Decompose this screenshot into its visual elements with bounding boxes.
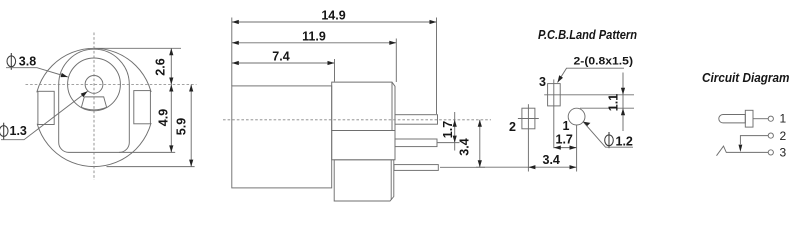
pad 1 top tangent line (580, 107, 634, 109)
dimension text 5.9 (175, 118, 189, 135)
sleeve contact rectangle (745, 110, 753, 127)
extension line body bottom (107, 166, 195, 168)
terminal 3 label (780, 145, 787, 159)
pin 2 (middle) (395, 139, 437, 147)
svg-text:3: 3 (780, 145, 787, 159)
svg-text:2-(0.8x1.5): 2-(0.8x1.5) (574, 56, 634, 68)
dimension text 1.7 (land pattern) (556, 133, 573, 147)
land pattern title (538, 28, 637, 42)
dimension line 14.9 (232, 20, 437, 24)
cover left circle sliver (31, 92, 39, 124)
svg-text:2: 2 (780, 129, 787, 143)
extension line top of body (94, 47, 181, 49)
pad 3 rectangle (548, 84, 561, 106)
jack body outer circle (35, 48, 153, 166)
pad 1 vertical centerline (576, 125, 578, 172)
front view vertical centerline (93, 33, 95, 181)
key slot trapezoid (81, 97, 106, 110)
extension line right 11.9 (395, 39, 397, 83)
svg-text:3: 3 (539, 75, 546, 89)
svg-text:2: 2 (509, 120, 516, 134)
label phi 1.3 with leader (0, 91, 88, 140)
svg-text:4.9: 4.9 (157, 109, 171, 126)
svg-text:5.9: 5.9 (175, 118, 189, 135)
extension line face bottom (119, 151, 175, 153)
svg-text:3.4: 3.4 (458, 138, 472, 155)
left mounting tab (38, 91, 54, 124)
terminal 1 label (780, 112, 787, 126)
svg-text:3.4: 3.4 (543, 153, 560, 167)
side view centerline (223, 119, 491, 121)
main body rectangle (232, 86, 332, 188)
dimension line 1.1 (621, 73, 625, 132)
extension line pin2 center (438, 142, 460, 144)
barrel chamfer line (391, 82, 393, 130)
pad 2 rectangle (522, 108, 535, 129)
svg-text:1.2: 1.2 (616, 134, 633, 148)
dimension line 1.7 (land pattern) (554, 146, 577, 150)
front face outline (59, 49, 130, 152)
plug tip symbol (719, 115, 746, 123)
label 2-(0.8x1.5) with leader (558, 56, 634, 83)
dimension text 3.4 (land pattern) (543, 153, 560, 167)
pad 2 vertical centerline (527, 104, 529, 171)
dimension line 11.9 (232, 41, 396, 45)
extension line right 14.9 (436, 18, 438, 115)
label 3 (539, 75, 546, 89)
label phi 3.8 with leader (6, 53, 68, 77)
terminal 1 circle (768, 116, 773, 121)
dimension text 2.6 (154, 58, 168, 75)
label phi 1.2 with leader (583, 122, 633, 149)
phi 1.3 pin circle (85, 76, 103, 94)
svg-text:Circuit Diagram: Circuit Diagram (702, 70, 790, 85)
pad 2 horizontal centerline (518, 118, 539, 120)
svg-text:P.C.B.Land Pattern: P.C.B.Land Pattern (538, 28, 637, 42)
extension line right 7.4 (334, 59, 336, 82)
svg-text:3.8: 3.8 (19, 54, 36, 68)
cover right circle sliver (150, 92, 158, 123)
switch arm arrow (739, 145, 743, 152)
phi 3.8 hole circle (68, 58, 121, 111)
dimension line 3.4 (land pattern horizontal) (476, 165, 577, 169)
lower block chamfer line (390, 160, 392, 200)
dimension text 11.9 (302, 29, 326, 43)
dimension line 7.4 (232, 61, 335, 65)
wire terminal 2 with switch arm (740, 136, 768, 145)
svg-text:11.9: 11.9 (302, 29, 326, 43)
pad 1 circle (568, 108, 585, 125)
svg-text:1: 1 (780, 112, 787, 126)
circuit diagram title (702, 70, 790, 85)
svg-text:7.4: 7.4 (272, 50, 289, 64)
dimension text 14.9 (321, 9, 345, 23)
svg-text:14.9: 14.9 (321, 9, 345, 23)
extension line left common (231, 18, 233, 86)
extension line pin3 center (440, 166, 485, 168)
middle insulator section (332, 131, 395, 160)
dimension text 4.9 (157, 109, 171, 126)
front barrel section (332, 82, 395, 130)
dimension text 7.4 (272, 50, 289, 64)
lower terminal block (334, 160, 394, 201)
terminal 2 label (780, 129, 787, 143)
svg-text:2.6: 2.6 (154, 58, 168, 75)
dimension line 3.4 (vertical between views) (478, 120, 482, 168)
pad 3 horizontal centerline (544, 94, 634, 96)
wire sleeve to terminal 1 (753, 118, 768, 120)
pin 1 (top) (395, 115, 438, 125)
label 1 (563, 119, 570, 133)
svg-text:1.1: 1.1 (607, 94, 621, 111)
pad 3 vertical centerline (553, 79, 555, 148)
terminal 3 circle (768, 150, 773, 155)
label 2 (509, 120, 516, 134)
pin 3 (bottom) (394, 165, 438, 171)
right mounting tab (134, 91, 151, 124)
dimension line 2.6 / 4.9 (169, 48, 173, 152)
terminal 2 circle (768, 133, 773, 138)
dimension text 1.1 (607, 94, 621, 111)
svg-text:1: 1 (563, 119, 570, 133)
svg-text:1.3: 1.3 (10, 124, 27, 138)
dimension text 1.7 (side) (441, 121, 455, 138)
dimension line 5.9 (189, 85, 193, 167)
tip spring contact wire (717, 146, 769, 156)
svg-text:1.7: 1.7 (441, 121, 455, 138)
dimension text 3.4 (vertical) (458, 138, 472, 155)
svg-text:1.7: 1.7 (556, 133, 573, 147)
dimension line 1.7 (side) (453, 112, 457, 151)
front view horizontal centerline (26, 84, 197, 86)
